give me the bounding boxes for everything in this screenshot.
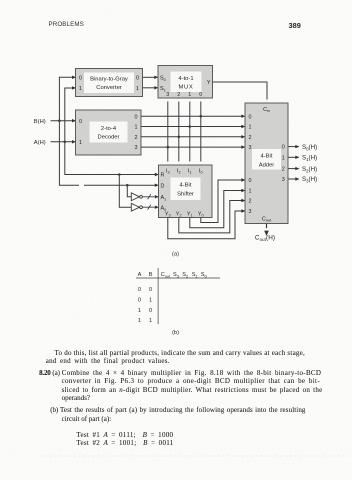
- wire MUX input 0 vertical to shifter I0: [200, 102, 202, 162]
- junction decoder row 1 / MUX input 1: [189, 125, 192, 128]
- truth table for part (b): [136, 268, 220, 324]
- wire MUX Y output to adder Cin: [213, 82, 267, 100]
- wire R line to shifter: [79, 174, 155, 176]
- junction on R line: [118, 173, 121, 176]
- 2-to-4 decoder block: [76, 110, 142, 155]
- 4-bit adder block: [245, 103, 288, 224]
- binary-to-gray converter block: [76, 69, 143, 97]
- node B(H) label: [34, 119, 46, 125]
- wire adder S3 output: [288, 178, 296, 180]
- node S3(H) label: [302, 176, 317, 184]
- junction decoder row 2 / MUX input 2: [178, 136, 181, 139]
- node A(H) label: [34, 140, 46, 146]
- wire A(H) branch vertical to converter input 1 and down to shifter R: [65, 88, 84, 175]
- wire D branch down to inverter for A1: [127, 185, 131, 197]
- wire shifter Y0 to adder B0: [201, 180, 242, 223]
- wire decoder output 2 row to adder: [141, 136, 242, 138]
- wire shifter Y1 to adder B1: [190, 191, 242, 228]
- 4-to-1 MUX U1: [158, 66, 213, 99]
- wire R branch down to inverter for A0: [119, 175, 131, 208]
- junction decoder row 3 / MUX input 3: [167, 146, 170, 149]
- wire decoder output 1 row to adder: [141, 126, 242, 128]
- wire decoder output 0 row to adder: [141, 115, 242, 117]
- wire adder S0 output: [288, 146, 296, 148]
- wire B(H) horizontal into decoder input 0: [51, 120, 73, 122]
- node Cout(H) label: [255, 235, 275, 243]
- node S2(H) label: [302, 166, 317, 174]
- wire B(H) branch vertical to converter input 0 and down to shifter D: [59, 77, 79, 185]
- junction on D line: [126, 184, 129, 187]
- paragraph: continuation text: [55, 350, 305, 357]
- node S0(H) label: [302, 144, 317, 152]
- wire shifter Y3 to adder B3: [168, 211, 242, 239]
- wire A(H) horizontal into decoder input 1: [51, 141, 73, 143]
- wire D line to shifter: [84, 184, 155, 186]
- faint scan artifact dotted rule: [40, 455, 348, 457]
- wire MUX input 1 vertical to shifter I1: [189, 102, 191, 162]
- inverter driving A0: [131, 203, 155, 211]
- inverter driving A1: [131, 193, 155, 201]
- wire shifter Y2 to adder B2: [179, 201, 242, 233]
- arrowheads: [72, 76, 300, 236]
- wire converter output 1 to MUX S1: [143, 87, 155, 89]
- figure label (a): [172, 251, 179, 257]
- wire decoder output 3 row to adder: [141, 146, 242, 148]
- wire converter output 0 to MUX S0: [143, 76, 155, 78]
- node S1(H) label: [302, 155, 317, 163]
- running head PROBLEMS: [49, 21, 84, 28]
- junction on A(H) line: [64, 141, 67, 144]
- wire adder S2 output: [288, 168, 296, 170]
- page number 389: [289, 21, 301, 30]
- junction decoder row 0 / MUX input 0: [200, 115, 203, 118]
- wire MUX input 2 vertical to shifter I2: [178, 102, 180, 162]
- figure label (b): [172, 330, 179, 336]
- wire MUX input 3 vertical to shifter I3: [167, 102, 169, 162]
- 4-bit shifter block: [159, 165, 213, 218]
- problem 8.20: [39, 370, 51, 377]
- junction on B(H) line: [58, 119, 61, 122]
- wire adder Cout down: [266, 224, 268, 229]
- wire adder S1 output: [288, 156, 296, 158]
